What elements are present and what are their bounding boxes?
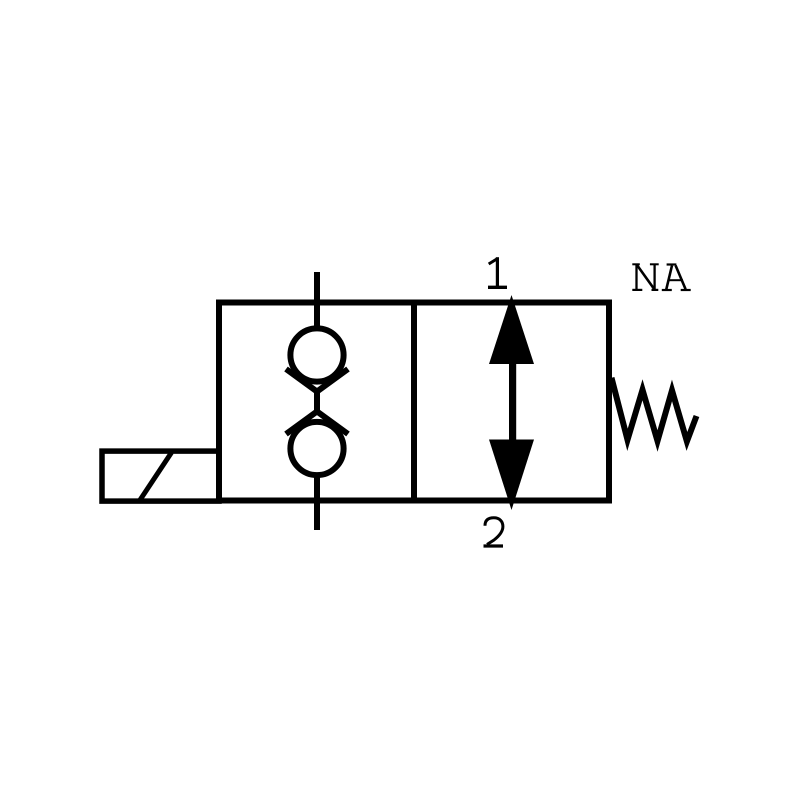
check ball B2 bbox=[290, 422, 343, 475]
label NA bbox=[632, 264, 690, 290]
pilot wire top segment bbox=[314, 272, 320, 330]
solenoid coil bbox=[102, 451, 219, 501]
pilot wire bottom segment bbox=[314, 474, 320, 530]
valve body envelope bbox=[219, 303, 609, 501]
flow path arrow bbox=[489, 295, 534, 510]
position divider bbox=[411, 300, 417, 504]
check ball B1 bbox=[290, 328, 343, 381]
pilot wire middle segment bbox=[314, 389, 320, 413]
spring return bbox=[612, 378, 697, 442]
valve seat bottom bbox=[286, 412, 348, 435]
port label 1 bbox=[488, 257, 507, 287]
valve seat top bbox=[286, 369, 348, 392]
port label 2 bbox=[484, 518, 504, 546]
